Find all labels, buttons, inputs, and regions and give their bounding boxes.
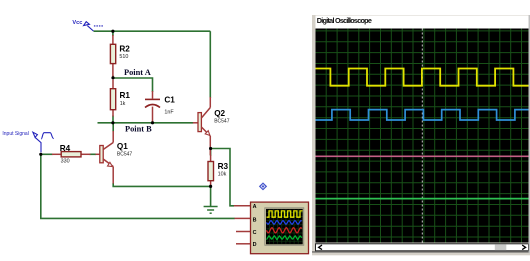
svg-text:BC547: BC547 [117, 152, 133, 158]
svg-text:10k: 10k [218, 171, 227, 177]
svg-text:R1: R1 [120, 91, 131, 100]
svg-text:Digital Oscilloscope: Digital Oscilloscope [317, 16, 372, 25]
svg-text:C: C [253, 230, 257, 236]
svg-text:Q2: Q2 [214, 109, 225, 118]
svg-text:R2: R2 [119, 45, 130, 54]
svg-text:BC547: BC547 [214, 118, 230, 124]
svg-text:R3: R3 [218, 162, 229, 171]
svg-text:C1: C1 [164, 96, 175, 105]
svg-text:B: B [253, 217, 257, 223]
svg-text:A: A [253, 204, 257, 210]
svg-text:D: D [253, 242, 257, 248]
svg-text:1nF: 1nF [164, 110, 174, 116]
svg-text:Input Signal: Input Signal [2, 131, 28, 137]
svg-text:Q1: Q1 [117, 142, 128, 151]
svg-text:Vcc: Vcc [72, 20, 82, 26]
svg-text:R4: R4 [60, 144, 71, 153]
svg-text:330: 330 [61, 158, 70, 164]
svg-text:Point A: Point A [124, 68, 151, 77]
svg-text:Point B: Point B [125, 124, 152, 133]
svg-text:510: 510 [119, 54, 128, 60]
svg-text:1k: 1k [120, 101, 126, 107]
